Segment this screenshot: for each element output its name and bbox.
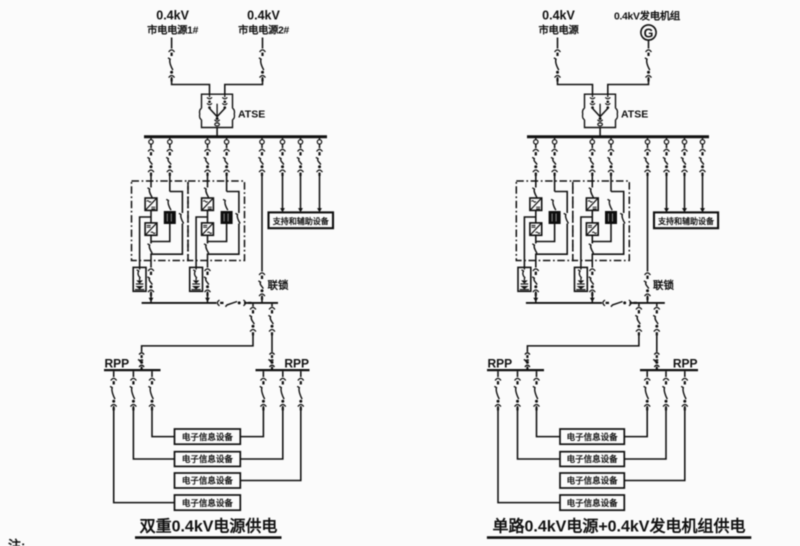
static bypass switch UPS2 (left dual-utility diagram) (223, 199, 228, 210)
wire UPS2 bypass input (left dual-utility diagram) (226, 173, 228, 192)
wire to support equipment 2 (right utility+generator diagram) (684, 173, 686, 209)
wire battery tap UPS1 (left dual-utility diagram) (140, 217, 151, 267)
wire busbar tap UPS1 bypass feed (left dual-utility diagram) (169, 138, 171, 140)
wire drop auxiliary feed 1 (right utility+generator diagram) (666, 144, 668, 148)
plug-in contact interlocked direct feed (right utility+generator diagram) (645, 140, 649, 144)
wire to load box 2 right side (left dual-utility diagram) (240, 406, 282, 459)
svg-text:电子信息设备: 电子信息设备 (567, 498, 619, 508)
wire drop interlocked direct feed (right utility+generator diagram) (647, 144, 649, 148)
svg-text:RPP: RPP (488, 356, 513, 370)
battery bank UPS1 (right utility+generator diagram) (518, 267, 531, 291)
feeder1 breaker upper (left dual-utility diagram) (249, 307, 256, 335)
breaker QF (source 1 left dual-utility diagram) (168, 50, 175, 81)
interlock breaker (left dual-utility diagram) (258, 273, 265, 300)
svg-text:双重0.4kV电源供电: 双重0.4kV电源供电 (140, 517, 278, 536)
wire right RPP drop to load 2 (left dual-utility diagram) (282, 371, 284, 377)
plug-in contact auxiliary feed 2 (right utility+generator diagram) (682, 140, 686, 144)
right RPP breaker load 1 (right utility+generator diagram) (644, 378, 651, 410)
wire feeder2 from output bus (left dual-utility diagram) (271, 304, 273, 307)
wire UPS1 output through enclosure (left dual-utility diagram) (150, 253, 152, 267)
wire maintenance bypass return UPS2 (right utility+generator diagram) (592, 224, 623, 255)
svg-text:RPP: RPP (105, 356, 130, 370)
wire to load box 1 right side (left dual-utility diagram) (240, 406, 263, 437)
feeder breaker UPS2 rectifier feed (left dual-utility diagram) (204, 149, 211, 176)
support & auxiliary equipment box (left dual-utility diagram) (269, 212, 334, 228)
feeder breaker auxiliary feed 3 (left dual-utility diagram) (316, 149, 323, 176)
title underline (right utility+generator diagram) (487, 536, 751, 539)
arrow into support equipment box (right utility+generator diagram) (700, 208, 705, 212)
svg-text:ATSE: ATSE (238, 109, 265, 121)
static transfer switch module UPS2 (left dual-utility diagram) (221, 211, 233, 224)
electronic information equipment load box 3 (right utility+generator diagram) (560, 473, 624, 488)
wire UPS1 rectifier input (left dual-utility diagram) (150, 173, 152, 188)
plug-in contact UPS2 rectifier feed (left dual-utility diagram) (205, 140, 209, 144)
feeder2 breaker lower (left dual-utility diagram) (268, 353, 274, 370)
wire source2 to ATSE (right utility+generator diagram) (608, 77, 649, 94)
wire drop auxiliary feed 2 (right utility+generator diagram) (684, 144, 686, 148)
wire drop UPS1 rectifier feed (left dual-utility diagram) (150, 144, 152, 148)
inverter DC/AC UPS2 (right utility+generator diagram) (586, 223, 598, 235)
feeder2 breaker lower (right utility+generator diagram) (653, 353, 659, 370)
wire from source label (source 2 left dual-utility diagram) (262, 38, 264, 49)
svg-text:G: G (644, 26, 654, 40)
wire feeder1 join left RPP bus (left dual-utility diagram) (141, 367, 143, 370)
wire drop UPS2 bypass feed (left dual-utility diagram) (226, 144, 228, 148)
wire to support equipment 3 (right utility+generator diagram) (702, 173, 704, 209)
feeder breaker UPS2 rectifier feed (right utility+generator diagram) (589, 149, 596, 176)
wire left RPP drop to load 2 (left dual-utility diagram) (132, 371, 134, 377)
wire busbar tap interlocked direct feed (right utility+generator diagram) (647, 138, 649, 140)
wire drop auxiliary feed 3 (right utility+generator diagram) (702, 144, 704, 148)
rectifier AC/DC UPS1 (left dual-utility diagram) (145, 198, 157, 210)
wire UPS2 rectifier input (right utility+generator diagram) (591, 173, 593, 188)
UPS1 output switch (left dual-utility diagram) (148, 244, 153, 254)
wire drop auxiliary feed 2 (left dual-utility diagram) (300, 144, 302, 148)
svg-text:注:: 注: (8, 538, 25, 546)
UPS module 2 enclosure (left dual-utility diagram) dash-dot boundary (188, 181, 245, 261)
svg-text:RPP: RPP (284, 356, 309, 370)
plug-in contact UPS1 rectifier feed (right utility+generator diagram) (534, 140, 538, 144)
right RPP breaker load 3 (right utility+generator diagram) (681, 378, 688, 410)
left RPP breaker load 1 (left dual-utility diagram) (148, 378, 155, 410)
wire busbar tap auxiliary feed 2 (right utility+generator diagram) (684, 138, 686, 140)
wire feeder1 from output bus (right utility+generator diagram) (638, 304, 640, 307)
wire to load box 2 left side (left dual-utility diagram) (133, 406, 174, 459)
wire busbar tap auxiliary feed 3 (left dual-utility diagram) (319, 138, 321, 140)
maintenance bypass switch UPS1 (left dual-utility diagram) (179, 213, 184, 223)
rectifier AC/DC UPS2 (left dual-utility diagram) (202, 198, 214, 210)
left RPP breaker load 2 (left dual-utility diagram) (130, 378, 137, 410)
wire left RPP drop to load 1 (left dual-utility diagram) (151, 371, 153, 377)
wire UPS1 rectifier input (right utility+generator diagram) (535, 173, 537, 188)
svg-text:电子信息设备: 电子信息设备 (182, 476, 234, 486)
plug-in contact auxiliary feed 1 (right utility+generator diagram) (664, 140, 668, 144)
wire maintenance bypass return UPS1 (right utility+generator diagram) (536, 224, 567, 255)
svg-text:联锁: 联锁 (653, 279, 674, 292)
svg-text:联锁: 联锁 (268, 279, 289, 292)
feeder breaker auxiliary feed 1 (right utility+generator diagram) (663, 149, 670, 176)
wire to load box 1 right side (right utility+generator diagram) (624, 406, 647, 437)
left RPP breaker load 4 (left dual-utility diagram) (110, 378, 117, 410)
feeder1 breaker upper (right utility+generator diagram) (635, 307, 642, 335)
wire drop auxiliary feed 1 (left dual-utility diagram) (282, 144, 284, 148)
arrow into support equipment box (left dual-utility diagram) (280, 208, 285, 212)
electronic information equipment load box 3 (left dual-utility diagram) (175, 473, 241, 488)
wire left RPP drop to load 1 (right utility+generator diagram) (536, 371, 538, 377)
UPS2 output switch (right utility+generator diagram) (589, 244, 594, 254)
feeder breaker auxiliary feed 3 (right utility+generator diagram) (699, 149, 706, 176)
svg-text:0.4kV: 0.4kV (247, 9, 280, 23)
wire feeder2 down (right utility+generator diagram) (656, 334, 658, 352)
wire UPS2 rectifier input (left dual-utility diagram) (207, 173, 209, 188)
wire source1 to ATSE (right utility+generator diagram) (558, 77, 593, 94)
feeder breaker UPS2 bypass feed (right utility+generator diagram) (607, 149, 614, 176)
maintenance bypass switch UPS2 (right utility+generator diagram) (620, 213, 625, 223)
wire busbar tap auxiliary feed 1 (left dual-utility diagram) (282, 138, 284, 140)
wire inverter output UPS2 (left dual-utility diagram) (207, 235, 209, 243)
electronic information equipment load box 2 (right utility+generator diagram) (560, 452, 624, 467)
svg-text:单路0.4kV电源+0.4kV发电机组供电: 单路0.4kV电源+0.4kV发电机组供电 (493, 517, 746, 536)
svg-text:电子信息设备: 电子信息设备 (182, 498, 234, 508)
wire drop UPS2 rectifier feed (right utility+generator diagram) (591, 144, 593, 148)
wire UPS1 maintenance bypass branch (right utility+generator diagram) (555, 192, 568, 214)
feeder2 breaker upper (left dual-utility diagram) (268, 307, 275, 335)
rectifier AC/DC UPS2 (right utility+generator diagram) (586, 198, 598, 210)
right RPP busbar (right utility+generator diagram) (640, 369, 698, 371)
switch on UPS1 rectifier input (left dual-utility diagram) (148, 188, 153, 198)
wire busbar tap UPS1 bypass feed (right utility+generator diagram) (554, 138, 556, 140)
wire UPS2 output through enclosure (left dual-utility diagram) (207, 253, 209, 267)
wire busbar tap auxiliary feed 3 (right utility+generator diagram) (702, 138, 704, 140)
wire UPS2 to output bus (left dual-utility diagram) (207, 292, 209, 303)
wire feeder2 join right RPP bus (left dual-utility diagram) (271, 367, 273, 370)
wire to support equipment 1 (right utility+generator diagram) (666, 173, 668, 209)
UPS1 output switch (right utility+generator diagram) (532, 244, 537, 254)
wire UPS2 to output bus (right utility+generator diagram) (591, 292, 593, 303)
wire to load box 1 left side (right utility+generator diagram) (537, 406, 561, 437)
bus tie switch (left dual-utility diagram) (217, 300, 251, 307)
wire drop UPS1 bypass feed (right utility+generator diagram) (554, 144, 556, 148)
svg-text:ATSE: ATSE (621, 109, 648, 121)
wire feeder1 join left RPP bus (right utility+generator diagram) (526, 367, 528, 370)
wire rectifier to inverter UPS2 (left dual-utility diagram) (207, 210, 209, 223)
plug-in contact UPS2 bypass feed (right utility+generator diagram) (609, 140, 613, 144)
main 0.4kV busbar (left dual-utility diagram) (144, 135, 327, 138)
wire source1 to ATSE (left dual-utility diagram) (172, 77, 210, 94)
svg-text:电子信息设备: 电子信息设备 (567, 476, 619, 486)
plug-in contact interlocked direct feed (left dual-utility diagram) (260, 140, 264, 144)
wire left RPP drop to load 4 (left dual-utility diagram) (113, 371, 115, 377)
UPS module 2 enclosure (right utility+generator diagram) dash-dot boundary (573, 181, 630, 261)
wire busbar tap UPS2 bypass feed (left dual-utility diagram) (226, 138, 228, 140)
wire UPS2 output through enclosure (right utility+generator diagram) (591, 253, 593, 267)
svg-text:RPP: RPP (673, 356, 698, 370)
wire drop UPS1 bypass feed (left dual-utility diagram) (169, 144, 171, 148)
wire busbar tap UPS1 rectifier feed (right utility+generator diagram) (535, 138, 537, 140)
wire UPS1 to output bus (left dual-utility diagram) (150, 292, 152, 303)
switch on UPS2 rectifier input (left dual-utility diagram) (204, 188, 209, 198)
wire ATSE output to main busbar (right utility+generator diagram) (599, 128, 601, 137)
main 0.4kV busbar (right utility+generator diagram) (527, 135, 709, 138)
wire drop interlocked direct feed (left dual-utility diagram) (261, 144, 263, 148)
feeder breaker auxiliary feed 2 (left dual-utility diagram) (297, 149, 304, 176)
plug-in contact UPS1 bypass feed (right utility+generator diagram) (552, 140, 556, 144)
electronic information equipment load box 1 (left dual-utility diagram) (175, 429, 241, 444)
wire right RPP drop to load 2 (right utility+generator diagram) (665, 371, 667, 377)
arrow into support equipment box (right utility+generator diagram) (682, 208, 687, 212)
wire busbar tap UPS2 rectifier feed (left dual-utility diagram) (207, 138, 209, 140)
arrow UPS2 output onto bus (right utility+generator diagram) (590, 298, 595, 302)
UPS2 output breaker (right utility+generator diagram) (589, 269, 596, 296)
electronic information equipment load box 2 (left dual-utility diagram) (175, 452, 241, 467)
bus tie switch (right utility+generator diagram) (603, 300, 637, 307)
breaker QF generator (right utility+generator diagram) (645, 50, 652, 81)
wire busbar tap interlocked direct feed (left dual-utility diagram) (261, 138, 263, 140)
right RPP busbar (left dual-utility diagram) (256, 369, 310, 371)
wire drop UPS2 rectifier feed (left dual-utility diagram) (207, 144, 209, 148)
breaker QF (source 2 left dual-utility diagram) (259, 50, 266, 81)
ATSE transfer switch (right utility+generator diagram) (583, 94, 618, 127)
wire inverter output UPS2 (right utility+generator diagram) (591, 235, 593, 243)
feeder breaker auxiliary feed 2 (right utility+generator diagram) (681, 149, 688, 176)
battery bank UPS1 (left dual-utility diagram) (133, 267, 146, 291)
plug-in contact auxiliary feed 2 (left dual-utility diagram) (298, 140, 302, 144)
svg-text:0.4kV: 0.4kV (156, 9, 189, 23)
wire maintenance bypass return UPS2 (left dual-utility diagram) (208, 224, 239, 255)
wire static switch to output junction UPS2 (left dual-utility diagram) (208, 224, 227, 242)
interlock breaker (right utility+generator diagram) (644, 273, 651, 300)
plug-in contact UPS2 bypass feed (left dual-utility diagram) (224, 140, 228, 144)
UPS1 output breaker (right utility+generator diagram) (532, 269, 539, 296)
wire rectifier to inverter UPS1 (left dual-utility diagram) (150, 210, 152, 223)
breaker QF (source 1 right utility+generator diagram) (554, 50, 561, 81)
wire UPS1 to output bus (right utility+generator diagram) (535, 292, 537, 303)
wire to load box 2 right side (right utility+generator diagram) (624, 406, 666, 459)
wire to load box 1 left side (left dual-utility diagram) (152, 406, 175, 437)
rectifier AC/DC UPS1 (right utility+generator diagram) (530, 198, 542, 210)
static transfer switch module UPS1 (right utility+generator diagram) (549, 211, 561, 224)
generator G (right utility+generator diagram) (641, 25, 656, 40)
arrow into support equipment box (right utility+generator diagram) (664, 208, 669, 212)
wire static switch to output junction UPS1 (right utility+generator diagram) (536, 224, 555, 242)
static bypass switch UPS2 (right utility+generator diagram) (608, 199, 613, 210)
wire UPS1 output through enclosure (right utility+generator diagram) (535, 253, 537, 267)
wire feeder2 join right RPP bus (right utility+generator diagram) (656, 367, 658, 370)
wire ATSE output to main busbar (left dual-utility diagram) (216, 128, 218, 137)
switch on UPS2 rectifier input (right utility+generator diagram) (589, 188, 594, 198)
svg-text:支持和辅助设备: 支持和辅助设备 (657, 216, 715, 226)
svg-text:电子信息设备: 电子信息设备 (182, 454, 234, 464)
plug-in contact UPS1 bypass feed (left dual-utility diagram) (168, 140, 172, 144)
wire busbar tap auxiliary feed 1 (right utility+generator diagram) (666, 138, 668, 140)
svg-text:市电电源2#: 市电电源2# (238, 24, 289, 37)
inverter DC/AC UPS1 (right utility+generator diagram) (530, 223, 542, 235)
feeder breaker interlocked direct feed (right utility+generator diagram) (644, 149, 651, 176)
left RPP breaker load 2 (right utility+generator diagram) (514, 378, 521, 410)
wire feeder2 from output bus (right utility+generator diagram) (656, 304, 658, 307)
wire rectifier to inverter UPS2 (right utility+generator diagram) (591, 210, 593, 223)
plug-in contact UPS2 rectifier feed (right utility+generator diagram) (590, 140, 594, 144)
wire right RPP drop to load 1 (right utility+generator diagram) (646, 371, 648, 377)
wire maintenance bypass return UPS1 (left dual-utility diagram) (151, 224, 182, 255)
wire right RPP drop to load 3 (right utility+generator diagram) (684, 371, 686, 377)
svg-text:0.4kV: 0.4kV (542, 9, 575, 23)
wire static switch to output junction UPS2 (right utility+generator diagram) (592, 224, 611, 242)
wire UPS2 bypass input (right utility+generator diagram) (610, 173, 612, 192)
feeder breaker UPS1 rectifier feed (left dual-utility diagram) (147, 149, 154, 176)
wire busbar tap auxiliary feed 2 (left dual-utility diagram) (300, 138, 302, 140)
plug-in contact auxiliary feed 3 (right utility+generator diagram) (700, 140, 704, 144)
right RPP breaker load 1 (left dual-utility diagram) (260, 378, 267, 410)
right RPP breaker load 2 (right utility+generator diagram) (662, 378, 669, 410)
feeder breaker auxiliary feed 1 (left dual-utility diagram) (279, 149, 286, 176)
ATSE transfer switch (left dual-utility diagram) (200, 94, 235, 127)
svg-text:市电电源1#: 市电电源1# (147, 24, 198, 37)
svg-text:电子信息设备: 电子信息设备 (567, 454, 619, 464)
inverter DC/AC UPS2 (left dual-utility diagram) (202, 223, 214, 235)
title underline (left dual-utility diagram) (135, 536, 282, 539)
wire busbar tap UPS1 rectifier feed (left dual-utility diagram) (150, 138, 152, 140)
arrow UPS2 output onto bus (left dual-utility diagram) (205, 298, 210, 302)
inverter DC/AC UPS1 (left dual-utility diagram) (145, 223, 157, 235)
wire static switch to output junction UPS1 (left dual-utility diagram) (151, 224, 170, 242)
wire feeder1 to left RPP (left dual-utility diagram) (142, 334, 253, 352)
wire to support equipment 2 (left dual-utility diagram) (300, 173, 302, 209)
static transfer switch module UPS2 (right utility+generator diagram) (605, 211, 617, 224)
feeder breaker UPS1 bypass feed (left dual-utility diagram) (166, 149, 173, 176)
static bypass switch UPS1 (left dual-utility diagram) (166, 199, 171, 210)
electronic information equipment load box 4 (right utility+generator diagram) (560, 495, 624, 510)
right RPP breaker load 3 (left dual-utility diagram) (297, 378, 304, 410)
wire interlock to output bus (left dual-utility diagram) (261, 296, 263, 303)
wire left RPP drop to load 4 (right utility+generator diagram) (497, 371, 499, 377)
wire UPS1 bypass input (left dual-utility diagram) (169, 173, 171, 192)
wire interlocked feed (left dual-utility diagram) (261, 173, 263, 272)
wire from source label (source 1 left dual-utility diagram) (171, 38, 173, 49)
UPS1 output breaker (left dual-utility diagram) (147, 269, 154, 296)
feeder2 breaker upper (right utility+generator diagram) (653, 307, 660, 335)
wire inverter output UPS1 (right utility+generator diagram) (535, 235, 537, 243)
wire to support equipment 1 (left dual-utility diagram) (282, 173, 284, 209)
maintenance bypass switch UPS1 (right utility+generator diagram) (564, 213, 569, 223)
UPS module 1 enclosure (right utility+generator diagram) dash-dot boundary (516, 181, 573, 261)
left RPP breaker load 4 (right utility+generator diagram) (494, 378, 501, 410)
wire busbar tap UPS2 bypass feed (right utility+generator diagram) (610, 138, 612, 140)
wire drop auxiliary feed 3 (left dual-utility diagram) (319, 144, 321, 148)
wire battery tap UPS2 (left dual-utility diagram) (196, 217, 207, 267)
wire interlocked feed (right utility+generator diagram) (647, 173, 649, 272)
wire battery tap UPS1 (right utility+generator diagram) (524, 217, 535, 267)
wire interlock to output bus (right utility+generator diagram) (647, 296, 649, 303)
wire to load box 4 left side (left dual-utility diagram) (114, 406, 175, 503)
wire to load box 4 left side (right utility+generator diagram) (498, 406, 560, 503)
feeder breaker UPS1 bypass feed (right utility+generator diagram) (551, 149, 558, 176)
wire UPS1 maintenance bypass branch (left dual-utility diagram) (170, 192, 183, 214)
svg-text:电子信息设备: 电子信息设备 (182, 432, 234, 442)
UPS2 output breaker (left dual-utility diagram) (204, 269, 211, 296)
UPS2 output switch (left dual-utility diagram) (204, 244, 209, 254)
feeder1 breaker lower (left dual-utility diagram) (138, 353, 144, 370)
left RPP breaker load 1 (right utility+generator diagram) (533, 378, 540, 410)
wire UPS2 maintenance bypass branch (right utility+generator diagram) (611, 192, 624, 214)
plug-in contact UPS1 rectifier feed (left dual-utility diagram) (149, 140, 153, 144)
arrow UPS1 output onto bus (left dual-utility diagram) (149, 298, 154, 302)
wire busbar tap UPS2 rectifier feed (right utility+generator diagram) (591, 138, 593, 140)
feeder1 breaker lower (right utility+generator diagram) (524, 353, 530, 370)
wire feeder2 down (left dual-utility diagram) (271, 334, 273, 352)
svg-text:支持和辅助设备: 支持和辅助设备 (272, 216, 330, 226)
electronic information equipment load box 4 (left dual-utility diagram) (175, 495, 241, 510)
wire drop UPS1 rectifier feed (right utility+generator diagram) (535, 144, 537, 148)
feeder breaker UPS2 bypass feed (left dual-utility diagram) (223, 149, 230, 176)
support & auxiliary equipment box (right utility+generator diagram) (654, 212, 718, 228)
wire rectifier to inverter UPS1 (right utility+generator diagram) (535, 210, 537, 223)
wire feeder1 to left RPP (right utility+generator diagram) (527, 334, 639, 352)
wire to load box 3 right side (right utility+generator diagram) (624, 406, 685, 481)
svg-text:电子信息设备: 电子信息设备 (567, 432, 619, 442)
plug-in contact auxiliary feed 1 (left dual-utility diagram) (280, 140, 284, 144)
electronic information equipment load box 1 (right utility+generator diagram) (560, 429, 624, 444)
wire to load box 2 left side (right utility+generator diagram) (518, 406, 561, 459)
wire right RPP drop to load 3 (left dual-utility diagram) (300, 371, 302, 377)
arrow into support equipment box (left dual-utility diagram) (317, 208, 322, 212)
battery bank UPS2 (left dual-utility diagram) (190, 267, 203, 291)
plug-in contact auxiliary feed 3 (left dual-utility diagram) (317, 140, 321, 144)
wire UPS2 maintenance bypass branch (left dual-utility diagram) (227, 192, 239, 214)
UPS module 1 enclosure (left dual-utility diagram) dash-dot boundary (132, 181, 189, 261)
battery bank UPS2 (right utility+generator diagram) (575, 267, 588, 291)
switch on UPS1 rectifier input (right utility+generator diagram) (532, 188, 537, 198)
left RPP busbar (right utility+generator diagram) (487, 369, 544, 371)
arrow UPS1 output onto bus (right utility+generator diagram) (533, 298, 538, 302)
svg-text:市电电源: 市电电源 (539, 24, 580, 37)
feeder breaker UPS1 rectifier feed (right utility+generator diagram) (532, 149, 539, 176)
left RPP busbar (left dual-utility diagram) (104, 369, 161, 371)
svg-text:0.4kV发电机组: 0.4kV发电机组 (614, 10, 681, 23)
maintenance bypass switch UPS2 (left dual-utility diagram) (235, 213, 240, 223)
UPS output bus (right utility+generator diagram) (526, 302, 665, 304)
wire UPS1 bypass input (right utility+generator diagram) (554, 173, 556, 192)
wire feeder1 from output bus (left dual-utility diagram) (252, 304, 254, 307)
wire battery tap UPS2 (right utility+generator diagram) (581, 217, 592, 267)
right RPP breaker load 2 (left dual-utility diagram) (279, 378, 286, 410)
static transfer switch module UPS1 (left dual-utility diagram) (164, 211, 176, 224)
wire from generator (right utility+generator diagram) (648, 40, 650, 48)
wire to support equipment 3 (left dual-utility diagram) (319, 173, 321, 209)
wire inverter output UPS1 (left dual-utility diagram) (150, 235, 152, 243)
wire to load box 3 right side (left dual-utility diagram) (240, 406, 300, 481)
wire from source label (source 1 right utility+generator diagram) (557, 38, 559, 49)
arrow into support equipment box (left dual-utility diagram) (298, 208, 303, 212)
wire left RPP drop to load 2 (right utility+generator diagram) (517, 371, 519, 377)
feeder breaker interlocked direct feed (left dual-utility diagram) (258, 149, 265, 176)
UPS output bus (left dual-utility diagram) (142, 302, 278, 304)
wire drop UPS2 bypass feed (right utility+generator diagram) (610, 144, 612, 148)
static bypass switch UPS1 (right utility+generator diagram) (551, 199, 556, 210)
wire right RPP drop to load 1 (left dual-utility diagram) (262, 371, 264, 377)
wire source2 to ATSE (left dual-utility diagram) (225, 77, 263, 94)
